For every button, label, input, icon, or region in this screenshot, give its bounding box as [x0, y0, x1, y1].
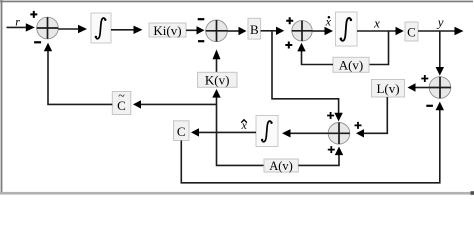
- plus sign at S5 bottom-left: [328, 146, 335, 153]
- wire I1 to Ki(v): [111, 26, 143, 34]
- summing junction S5: [328, 123, 350, 145]
- gain block A(v) upper: [333, 57, 369, 72]
- svg-text:~: ~: [118, 89, 125, 103]
- summing junction S2: [206, 20, 228, 42]
- gain block K(v): [198, 72, 238, 87]
- wire S5 output to integrator I3: [282, 129, 328, 137]
- gain block A(v) lower: [264, 159, 298, 173]
- plus sign at S5 top-left: [327, 112, 334, 119]
- summing junction S1: [37, 17, 59, 39]
- wire B branch down and right into S5 top: [272, 31, 343, 122]
- svg-text:B: B: [250, 22, 259, 37]
- wire r input arrow into S1: [7, 23, 35, 31]
- plus sign at S1 top-left: [30, 11, 37, 18]
- wire x branch down to A(v) upper: [369, 31, 389, 65]
- wire y branch down into S4: [436, 31, 444, 76]
- wire S2 to B: [227, 27, 246, 35]
- minus sign at S2 upper-left: [198, 18, 205, 20]
- summing junction S4: [429, 77, 451, 99]
- svg-text:y: y: [436, 14, 444, 29]
- integrator I2: [336, 12, 358, 46]
- wire Ctilde left and up into S1: [44, 43, 113, 105]
- svg-text:A(v): A(v): [269, 159, 293, 173]
- svg-text:K(v): K(v): [205, 73, 230, 88]
- svg-text:C: C: [407, 24, 416, 39]
- svg-text:x: x: [373, 16, 380, 31]
- node xdot label: [325, 14, 332, 28]
- wire B to S3 with junction: [261, 27, 285, 35]
- svg-text:Ki(v): Ki(v): [153, 23, 181, 38]
- plus sign at S3 bottom-left: [285, 42, 292, 49]
- node xhat label: [241, 118, 248, 132]
- minus sign at S2 lower-left: [198, 40, 204, 42]
- frame bottom-right corner nub: [471, 191, 474, 195]
- wire I3 to C bottom: [191, 128, 256, 136]
- wire Ki(v) to S2: [186, 26, 205, 34]
- wire xhat branch down to A(v) lower: [217, 132, 265, 165]
- node y output label: [436, 14, 444, 29]
- wire S4 output to L(v): [408, 83, 430, 91]
- frame left border: [1, 0, 3, 193]
- frame top border: [0, 1, 473, 3]
- node x label: [373, 16, 380, 31]
- gain block Ki(v): [149, 23, 186, 38]
- svg-text:C: C: [177, 124, 186, 139]
- wire C to output arrow: [418, 27, 464, 35]
- integrator I1: [91, 13, 111, 43]
- gain block B: [248, 18, 261, 39]
- wire xhat branch left into Ctilde: [133, 100, 217, 108]
- svg-text:r: r: [15, 14, 20, 28]
- wire C bottom output down right and up into S4 minus: [181, 102, 444, 183]
- wire I2 to C with branch junction: [357, 27, 404, 35]
- gain block C bottom: [174, 121, 190, 141]
- plus sign at S3 top-left: [286, 17, 293, 24]
- wire L(v) down and left into S5: [356, 97, 387, 138]
- summing junction S3: [292, 21, 312, 41]
- plus sign at S4 top-left: [421, 75, 428, 82]
- wire A(v) upper left and up into S3 bottom: [297, 43, 333, 65]
- wire S3 to integrator I2: [312, 27, 333, 35]
- wire xhat branch up to K(v): [212, 89, 220, 132]
- integrator I3: [256, 116, 278, 147]
- wire K(v) up into S2: [213, 49, 221, 72]
- plus sign at S5 right input: [355, 122, 362, 129]
- frame bottom border: [0, 192, 474, 195]
- svg-text:L(v): L(v): [376, 81, 399, 96]
- gain block C top: [405, 22, 418, 41]
- wire A(v) lower right and up into S5 bottom: [298, 147, 343, 166]
- gain block L(v): [372, 80, 405, 98]
- minus sign at S1 bottom-left: [34, 41, 41, 43]
- wire S1 to integrator I1: [58, 25, 87, 33]
- minus sign at S4 bottom-left: [426, 105, 433, 107]
- node r input label: [15, 14, 20, 28]
- svg-text:A(v): A(v): [339, 58, 364, 73]
- gain block C tilde: [112, 89, 131, 115]
